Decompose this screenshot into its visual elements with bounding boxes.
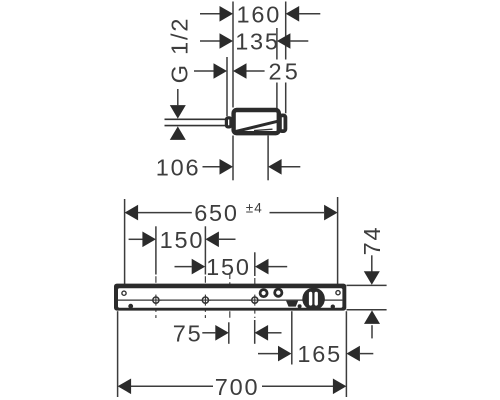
arrow 700 right xyxy=(333,379,347,395)
extension line 650-left xyxy=(124,199,126,291)
dim line 650 right xyxy=(270,212,325,214)
arrow 150b left xyxy=(192,259,206,275)
leader line 74 upper xyxy=(371,255,373,271)
arrow 25 right xyxy=(233,63,247,79)
svg-text:74: 74 xyxy=(359,226,385,256)
svg-text:75: 75 xyxy=(173,320,203,346)
sloped tablet face xyxy=(235,121,277,131)
screw hole right xyxy=(336,291,340,295)
arrow 135 right xyxy=(277,33,291,49)
dim tail 165 right xyxy=(360,353,373,355)
dim tail 106 left xyxy=(203,166,220,168)
arrow 135 left xyxy=(220,33,234,49)
label 25 xyxy=(265,59,302,85)
arrow 650 left xyxy=(125,205,139,221)
small dot right xyxy=(331,305,335,309)
extension line 700/165-right xyxy=(345,311,347,397)
dim tail 160 left xyxy=(200,13,220,15)
bar body front view xyxy=(114,284,346,311)
centreline bar middle xyxy=(229,273,231,320)
centreline hole3 xyxy=(254,278,256,318)
svg-text:±4: ±4 xyxy=(246,200,263,215)
dim tail 135 right xyxy=(290,40,308,42)
svg-text:160: 160 xyxy=(237,1,282,27)
mounting hole 3 xyxy=(249,295,260,306)
arrow 160 right xyxy=(286,6,300,22)
svg-text:650: 650 xyxy=(194,200,239,226)
spout drip dot xyxy=(298,304,302,308)
bar seam line xyxy=(118,299,342,301)
arrow 74 upper xyxy=(364,271,380,285)
spout xyxy=(286,301,298,307)
dim tail 165 left xyxy=(258,353,278,355)
arrow G1/2 up xyxy=(170,126,186,139)
inner edge line xyxy=(254,129,273,130)
arrow 106 right xyxy=(268,159,282,175)
dim line 700 left xyxy=(131,385,213,387)
extension line body-left bottom xyxy=(232,136,234,181)
svg-text:135: 135 xyxy=(235,29,280,55)
extension line 74-bottom xyxy=(347,309,387,311)
dim line 650 left xyxy=(138,212,192,214)
svg-text:150: 150 xyxy=(160,227,205,253)
svg-text:700: 700 xyxy=(215,374,260,400)
dim line 700 right xyxy=(262,385,333,387)
dim tail 75 right xyxy=(268,332,282,334)
arrow 160 left xyxy=(220,6,234,22)
arrow 165 right xyxy=(346,346,360,362)
outlet ring 1 xyxy=(260,290,267,297)
extension line 106-right bottom xyxy=(267,136,269,181)
centreline hole1 xyxy=(155,276,157,318)
arrow 75 right xyxy=(255,325,269,341)
leader tail 74 lower xyxy=(371,325,373,338)
outlet ring 2 xyxy=(275,289,282,296)
screw hole left xyxy=(122,291,126,295)
svg-text:106: 106 xyxy=(156,154,201,180)
extension line 650-right xyxy=(337,197,339,290)
handle knob xyxy=(302,288,325,311)
wall connection bump xyxy=(226,118,231,127)
supply pipe G1/2 xyxy=(165,119,227,125)
arrow 75 left xyxy=(215,325,229,341)
extension line 75-right below bar xyxy=(254,320,256,344)
arrow 150a left xyxy=(142,232,156,248)
dim tail 75 left xyxy=(202,332,215,334)
extension line 165-left (spout centre) xyxy=(291,311,293,364)
dim tail 150a right xyxy=(219,238,236,240)
centreline hole2 xyxy=(204,276,206,318)
extension line wall-bump xyxy=(226,57,228,116)
arrow 165 left xyxy=(278,346,292,362)
svg-text:25: 25 xyxy=(269,59,302,85)
drain dot left xyxy=(128,304,133,309)
extension line body-left top xyxy=(232,2,234,108)
mounting hole 1 xyxy=(150,295,161,306)
arrow G1/2 down xyxy=(170,105,186,119)
arrow 650 right xyxy=(324,205,338,221)
arrow 74 lower xyxy=(364,310,380,324)
extension line hole2 xyxy=(204,226,206,274)
extension line body-right top xyxy=(276,28,278,109)
dim tail 150b right xyxy=(268,266,287,268)
dim tail 106 right xyxy=(282,166,301,168)
mixer body side view xyxy=(234,110,279,133)
dim tail 135 left xyxy=(200,40,220,42)
extension line knob-right top xyxy=(285,2,287,114)
arrow 106 left xyxy=(220,159,234,175)
arrow 150a right xyxy=(205,232,219,248)
extension line 75-left below bar xyxy=(228,322,230,344)
arrow 700 left xyxy=(118,379,132,395)
mounting hole 2 xyxy=(200,295,211,306)
leader line G1/2 xyxy=(177,89,179,105)
dim tail 150a left xyxy=(129,238,143,240)
extension line 700-left xyxy=(117,311,119,397)
svg-text:G 1/2: G 1/2 xyxy=(167,17,193,83)
arrow 25 left xyxy=(214,63,228,79)
svg-text:150: 150 xyxy=(206,254,251,280)
dim tail 150b left xyxy=(175,266,192,268)
extension line 74-top xyxy=(347,284,387,286)
dim tail 160 right xyxy=(299,13,320,15)
extension line hole3 xyxy=(254,252,256,276)
dim tail 25 left xyxy=(194,70,214,72)
control knob side view xyxy=(280,115,286,131)
dim tail 25 right xyxy=(246,70,264,72)
arrow 150b right xyxy=(255,259,269,275)
extension line hole1 xyxy=(155,226,157,274)
svg-text:165: 165 xyxy=(297,341,342,367)
